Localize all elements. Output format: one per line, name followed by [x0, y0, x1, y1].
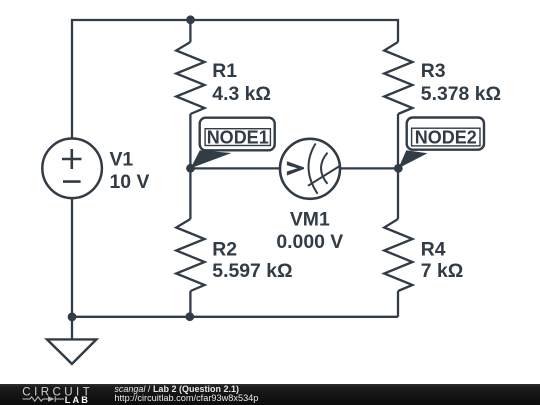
- svg-text:VM1: VM1: [290, 208, 330, 230]
- svg-text:5.378 kΩ: 5.378 kΩ: [421, 83, 501, 105]
- svg-text:7 kΩ: 7 kΩ: [421, 260, 464, 282]
- svg-text:4.3 kΩ: 4.3 kΩ: [212, 83, 271, 105]
- svg-text:V1: V1: [110, 149, 134, 171]
- svg-text:NODE2: NODE2: [415, 127, 477, 147]
- svg-text:R4: R4: [421, 239, 446, 261]
- svg-text:R2: R2: [212, 239, 237, 261]
- svg-text:10 V: 10 V: [110, 171, 150, 193]
- svg-text:NODE1: NODE1: [207, 127, 269, 147]
- svg-text:5.597 kΩ: 5.597 kΩ: [212, 260, 292, 282]
- svg-text:R3: R3: [421, 60, 446, 82]
- svg-text:0.000 V: 0.000 V: [276, 231, 343, 253]
- svg-text:R1: R1: [212, 60, 237, 82]
